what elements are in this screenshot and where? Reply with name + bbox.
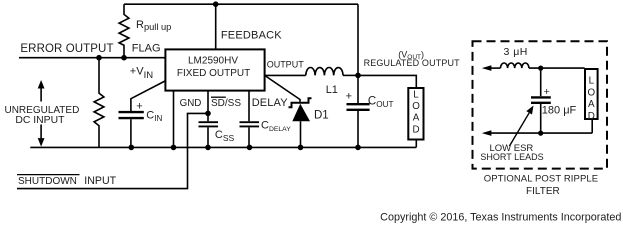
label UNREGULATED DC INPUT <box>4 105 79 126</box>
svg-text:FIXED OUTPUT: FIXED OUTPUT <box>177 68 250 79</box>
svg-text:SHUTDOWN: SHUTDOWN <box>18 176 77 187</box>
resistor Rpull up <box>119 4 129 58</box>
wire: diode anode to rail <box>300 121 302 147</box>
svg-text:+: + <box>346 91 352 103</box>
svg-text:A: A <box>413 113 420 124</box>
wire: VOUT to COUT <box>357 75 359 103</box>
svg-text:SD/SS: SD/SS <box>211 98 241 109</box>
wire: CIN to ground rail <box>130 119 132 147</box>
annotation arrow: low ESR pointer <box>509 106 533 147</box>
svg-text:CIN: CIN <box>146 110 162 124</box>
svg-text:L: L <box>413 90 419 101</box>
wire: inductor to filter load <box>529 67 585 69</box>
node: CDELAY rail junction <box>247 145 253 151</box>
node: VOUT junction <box>355 73 361 79</box>
svg-text:L1: L1 <box>326 84 338 96</box>
wire: OUTPUT pin to inductor <box>265 74 306 76</box>
wire: SD/SS pin drop <box>207 91 209 147</box>
svg-text:COUT: COUT <box>368 96 394 109</box>
svg-text:FILTER: FILTER <box>526 186 560 197</box>
diode D1 (Schottky) cathode bar <box>289 98 312 107</box>
svg-text:L: L <box>589 76 595 87</box>
svg-text:OPTIONAL POST RIPPLE: OPTIONAL POST RIPPLE <box>484 173 598 184</box>
svg-text:A: A <box>588 99 595 110</box>
node: feedback tap junction <box>213 1 219 7</box>
wire: inductor to VOUT node <box>343 74 358 76</box>
svg-text:Rpull up: Rpull up <box>136 19 171 32</box>
inductor 3uH <box>501 63 529 68</box>
node: filter bottom junction <box>538 131 543 136</box>
filter load box (LOAD) <box>585 69 598 119</box>
svg-text:O: O <box>412 101 420 112</box>
svg-text:D: D <box>412 124 419 135</box>
svg-text:180 μF: 180 μF <box>542 104 577 116</box>
node: diode rail junction <box>298 145 304 151</box>
node: CSS rail junction <box>205 145 211 151</box>
diode D1 triangle <box>292 104 310 121</box>
svg-text:OUTPUT: OUTPUT <box>267 59 305 69</box>
label SHUTDOWN (overlined) INPUT <box>17 175 117 187</box>
capacitor CIN <box>119 112 144 118</box>
resistor: input bleed resistor <box>94 58 104 148</box>
node: GND rail junction <box>171 145 177 151</box>
svg-text:CSS: CSS <box>215 129 235 143</box>
svg-text:O: O <box>587 87 595 98</box>
wire: filter cap bottom lead <box>540 104 542 133</box>
wire: GND pin drop <box>173 91 175 147</box>
wire: COUT to rail <box>357 111 359 147</box>
wire: ground rail <box>30 146 416 148</box>
node: junction at bleed resistor top <box>96 55 102 61</box>
IC U1 LM2590HV FIXED OUTPUT <box>165 49 264 90</box>
svg-text:ERROR OUTPUT: ERROR OUTPUT <box>20 43 113 55</box>
wire: filter bottom to load <box>591 120 593 134</box>
svg-text:3 μH: 3 μH <box>504 46 528 58</box>
node: filter cap junction <box>538 66 543 71</box>
svg-text:REGULATED OUTPUT: REGULATED OUTPUT <box>364 58 461 68</box>
svg-text:FEEDBACK: FEEDBACK <box>221 30 282 42</box>
load resistor box (LOAD) <box>408 88 423 140</box>
svg-text:D1: D1 <box>314 110 329 122</box>
capacitor 180uF <box>531 97 551 102</box>
dashed box: optional post ripple filter <box>473 41 608 168</box>
svg-text:Copyright © 2016, Texas Instru: Copyright © 2016, Texas Instruments Inco… <box>380 212 621 224</box>
svg-text:FLAG: FLAG <box>132 42 161 54</box>
svg-text:DELAY: DELAY <box>252 97 289 109</box>
svg-text:LM2590HV: LM2590HV <box>188 56 238 67</box>
wire: top rail drop to VOUT node <box>357 4 359 75</box>
wire: shutdown input link <box>17 113 208 188</box>
inductor L1 <box>306 68 343 76</box>
node: CIN rail junction <box>129 145 135 151</box>
arrow: filter output left arrow <box>482 65 501 71</box>
svg-text:INPUT: INPUT <box>84 175 116 187</box>
node: SD/SS shutdown tap junction <box>205 111 211 117</box>
capacitor COUT <box>347 104 370 110</box>
node: COUT rail junction <box>355 145 361 151</box>
svg-text:DC INPUT: DC INPUT <box>15 115 65 126</box>
wire: +VIN pin diagonal to CIN <box>131 81 165 111</box>
node: junction at Rpull up / FLAG <box>121 55 127 61</box>
svg-text:+: + <box>544 86 550 98</box>
wire: VOUT to load <box>358 75 416 88</box>
svg-text:+VIN: +VIN <box>130 66 153 81</box>
svg-text:D: D <box>588 111 595 122</box>
arrow: unregulated input span arrow <box>38 80 45 147</box>
wire: load to rail <box>415 140 417 148</box>
wire: FEEDBACK pin drop to IC <box>215 4 217 49</box>
wire: ERROR OUTPUT / FLAG net <box>19 57 165 59</box>
svg-text:CDELAY: CDELAY <box>261 120 291 133</box>
label LOAD vertical <box>412 90 420 136</box>
capacitor CSS <box>199 122 219 126</box>
capacitor CDELAY <box>240 122 260 126</box>
wire: diagonal from OUTPUT to diode cathode <box>265 75 300 101</box>
label SD/SS pin (SD overlined) <box>211 97 241 109</box>
arrow: filter return left arrow <box>482 130 592 136</box>
svg-text:+: + <box>136 100 142 112</box>
label filter LOAD vertical <box>587 76 595 122</box>
wire: DELAY pin drop <box>248 91 250 147</box>
wire: top feedback rail <box>124 3 358 5</box>
wire: filter cap top lead <box>540 68 542 96</box>
svg-text:SHORT LEADS: SHORT LEADS <box>480 152 543 162</box>
svg-text:GND: GND <box>180 98 202 109</box>
